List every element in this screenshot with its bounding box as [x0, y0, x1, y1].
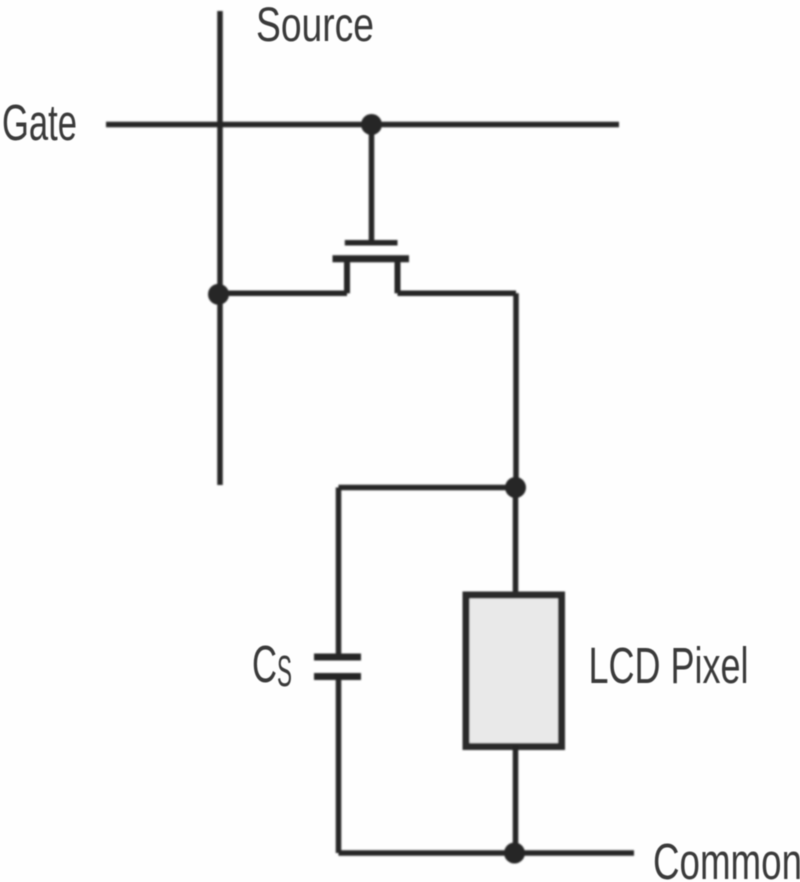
wire: below capacitor down to common rail: [336, 677, 342, 854]
wire: Cs branch down to capacitor: [336, 488, 342, 655]
node: junction on Source line: [208, 284, 229, 305]
wire: TFT drain horizontal: [398, 291, 517, 297]
wire: Gate scan line (horizontal): [106, 122, 619, 128]
capacitor Cs bottom plate: [314, 673, 361, 680]
wire: gate lead down to TFT: [369, 125, 375, 241]
svg-text:C: C: [252, 636, 277, 694]
node: junction on common rail: [504, 843, 525, 864]
wire: below LCD pixel down to common rail: [513, 746, 519, 853]
LCD pixel element (rectangle): [466, 595, 562, 747]
svg-text:Common: Common: [653, 833, 800, 882]
wire: pixel node down to LCD pixel element: [513, 488, 519, 596]
wire: pixel node horizontal to Cs branch: [339, 485, 516, 491]
wire: TFT source to Source line: [219, 291, 348, 297]
svg-text:S: S: [277, 647, 292, 696]
transistor Q1 (TFT) gate bar: [345, 240, 398, 246]
wire: Source data line (vertical): [217, 11, 223, 485]
node: pixel storage node junction: [505, 477, 526, 498]
node: junction of gate line and TFT gate lead: [361, 114, 382, 135]
svg-text:Gate: Gate: [2, 94, 77, 151]
transistor Q1 (TFT) channel bar: [333, 255, 410, 262]
wire: drain vertical down to pixel node: [513, 293, 519, 487]
wire: Common rail (horizontal): [339, 850, 635, 856]
svg-text:LCD Pixel: LCD Pixel: [589, 637, 749, 694]
transistor Q1 drain leg: [395, 259, 401, 294]
capacitor Cs top plate: [314, 654, 361, 661]
svg-text:Source: Source: [256, 0, 374, 52]
transistor Q1 source leg: [344, 259, 350, 294]
